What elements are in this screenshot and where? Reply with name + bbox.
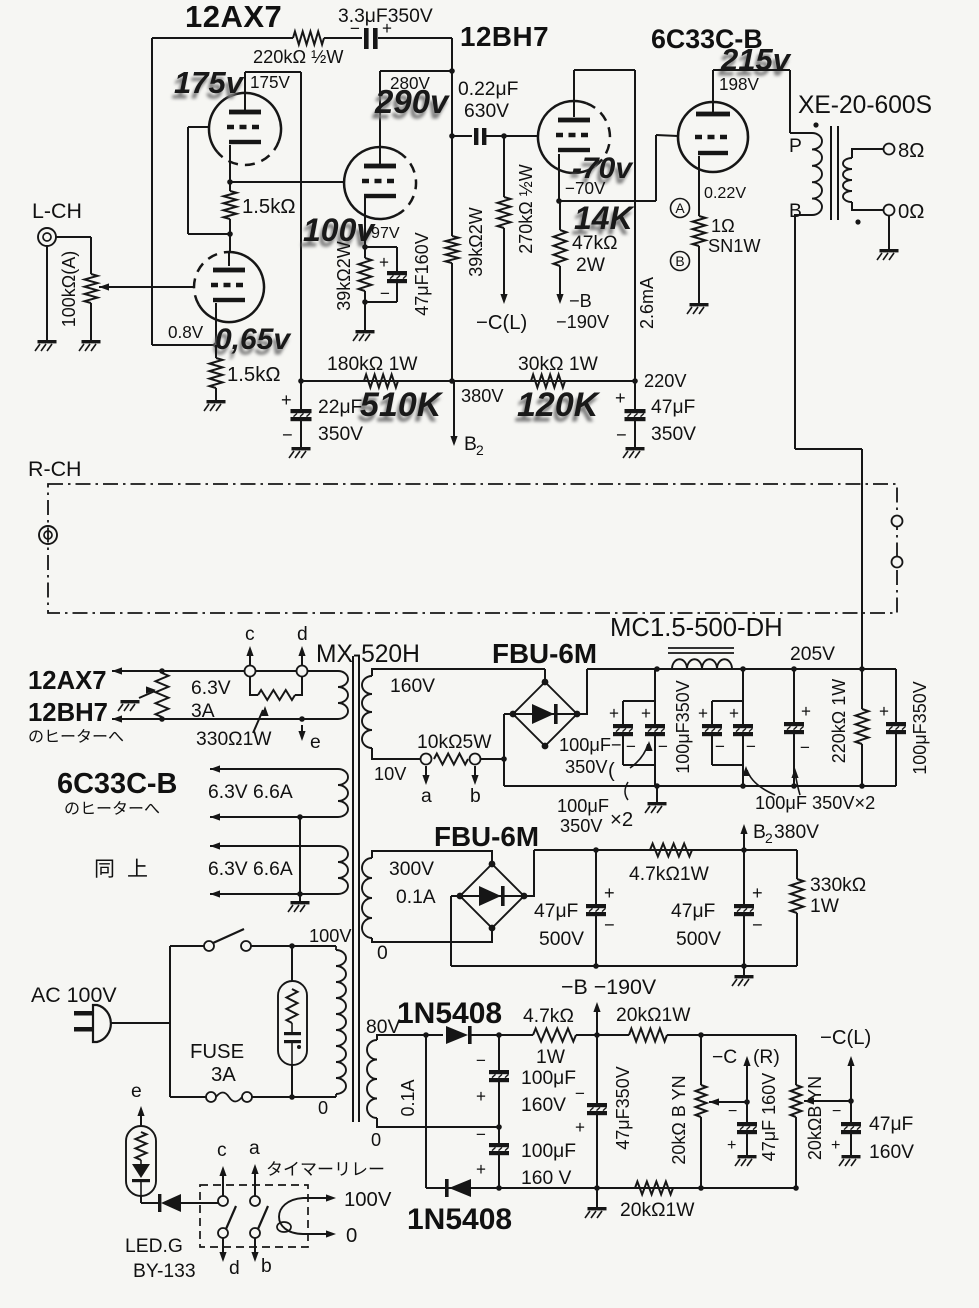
svg-text:350V: 350V bbox=[318, 424, 363, 445]
wire secondary top to 8ohm bbox=[852, 149, 883, 158]
arrow callout3 bbox=[795, 772, 800, 795]
wire pilot bottom lead bbox=[291, 1065, 293, 1097]
arrow winding2 bottom bbox=[210, 813, 220, 820]
wire grid step up bbox=[655, 135, 657, 201]
wire C11 bottom bbox=[895, 734, 897, 786]
svg-text:100μF: 100μF bbox=[521, 1141, 576, 1162]
node bias gnd mid bbox=[594, 1185, 600, 1191]
svg-text:1N5408: 1N5408 bbox=[407, 1203, 512, 1236]
svg-text:100μF350V: 100μF350V bbox=[910, 681, 930, 774]
wire pot top bbox=[90, 237, 92, 274]
wire cap stack bottom lead bbox=[498, 1155, 500, 1188]
svg-text:1N5408: 1N5408 bbox=[397, 997, 502, 1030]
svg-text:380V: 380V bbox=[774, 822, 819, 843]
svg-text:−: − bbox=[832, 1102, 841, 1120]
svg-text:330kΩ: 330kΩ bbox=[810, 875, 866, 896]
svg-text:20kΩ B YN: 20kΩ B YN bbox=[669, 1075, 689, 1164]
OPT phase dot secondary bbox=[855, 219, 860, 224]
node B+ input bbox=[859, 666, 865, 672]
svg-text:1.5kΩ: 1.5kΩ bbox=[227, 364, 281, 386]
node cap3 top bbox=[791, 666, 797, 672]
wire b to bridge bbox=[481, 758, 504, 760]
wire LED to diode bbox=[140, 1196, 142, 1203]
svg-text:×2: ×2 bbox=[610, 809, 633, 831]
wire winding2 top bbox=[210, 768, 338, 770]
label timer relay bbox=[268, 1161, 281, 1176]
svg-text:0: 0 bbox=[371, 1130, 381, 1150]
svg-text:(R): (R) bbox=[753, 1047, 780, 1068]
wire V3 plate to OPT P bbox=[713, 69, 790, 71]
svg-text:−: − bbox=[626, 737, 636, 756]
svg-text:−: − bbox=[575, 1084, 585, 1103]
capacitor C15 100uF160V bbox=[489, 1143, 509, 1147]
LED lamp assembly bbox=[126, 1126, 156, 1196]
diode D3 1N5408 bbox=[446, 1026, 468, 1044]
svg-text:350V: 350V bbox=[651, 424, 696, 445]
svg-text:100V: 100V bbox=[309, 926, 352, 946]
svg-text:−: − bbox=[380, 284, 390, 303]
wire B jog bbox=[795, 448, 862, 450]
svg-text:(: ( bbox=[608, 760, 615, 782]
node hum pot bottom bbox=[159, 716, 165, 722]
wire to R1 bbox=[229, 182, 231, 191]
capacitor C8 100uF350V bbox=[702, 724, 722, 728]
wire 0ohm to ground bbox=[888, 216, 890, 249]
svg-text:−: − bbox=[476, 1051, 486, 1070]
svg-text:+: + bbox=[879, 702, 889, 721]
wire to coupling cap bbox=[452, 135, 472, 137]
svg-text:d: d bbox=[297, 624, 308, 645]
V1a cathode wire bbox=[229, 145, 231, 182]
svg-text:2: 2 bbox=[476, 442, 484, 458]
capacitor C6 100uF350V bbox=[613, 724, 633, 728]
node winding2 bottom bbox=[297, 814, 303, 820]
arrow B2 out bbox=[743, 828, 745, 850]
node B+ rail junction bbox=[449, 378, 455, 384]
svg-text:20kΩ1W: 20kΩ1W bbox=[616, 1005, 691, 1026]
svg-text:−: − bbox=[746, 737, 756, 756]
wire 80V bottom lead bbox=[377, 1118, 499, 1127]
wire to fuse bbox=[170, 1096, 206, 1098]
svg-text:100V: 100V bbox=[344, 1189, 392, 1211]
capacitor C4 22uF350V lead bbox=[300, 381, 302, 409]
OPT phase dot primary bbox=[813, 122, 818, 127]
svg-text:160 V: 160 V bbox=[521, 1168, 572, 1189]
capacitor C13 47uF500V bbox=[734, 904, 754, 908]
svg-text:−B: −B bbox=[569, 291, 592, 311]
capacitor C10 100uF350V lead bbox=[793, 669, 795, 722]
wire jack to ground bbox=[46, 246, 48, 340]
svg-text:+: + bbox=[801, 702, 811, 721]
wire primary bottom bbox=[335, 1094, 337, 1097]
wire R14 bottom bbox=[861, 744, 863, 786]
test point A bbox=[671, 199, 690, 218]
svg-text:−70V: −70V bbox=[565, 179, 606, 198]
heater winding 6.3V 3A bbox=[338, 671, 348, 719]
arrow winding3 bottom bbox=[210, 890, 220, 897]
node choke out bbox=[740, 666, 746, 672]
wire B+ column lower bbox=[451, 263, 453, 381]
wire R2 to ground bbox=[215, 388, 217, 400]
OPT T1 core bbox=[830, 126, 832, 220]
capacitor C2 47uF160V bbox=[387, 271, 407, 275]
wire C2 bottom bracket bbox=[365, 301, 397, 303]
svg-text:e: e bbox=[131, 1081, 142, 1102]
svg-text:39kΩ2W: 39kΩ2W bbox=[334, 241, 354, 310]
wire 160V bottom lead bbox=[372, 748, 420, 759]
svg-text:0.22V: 0.22V bbox=[704, 184, 746, 202]
wire bridge2 neg down bbox=[450, 896, 452, 966]
svg-text:B: B bbox=[464, 434, 477, 455]
svg-text:0,65v: 0,65v bbox=[215, 323, 292, 356]
wire wiper to V1b grid bbox=[99, 286, 194, 288]
wire R1 bottom bbox=[229, 219, 231, 234]
node pot R feed bbox=[698, 1032, 704, 1038]
timer relay box (dashed) bbox=[200, 1185, 308, 1247]
svg-text:0: 0 bbox=[346, 1225, 357, 1247]
power transformer T2 core bbox=[352, 656, 354, 1122]
svg-text:+: + bbox=[476, 1087, 486, 1106]
node pilot bottom bbox=[289, 1094, 295, 1100]
OPT T1 primary lead bbox=[790, 132, 812, 134]
V2a cathode wire bbox=[364, 198, 366, 247]
svg-text:100μF−: 100μF− bbox=[559, 735, 622, 755]
svg-text:0.22μF: 0.22μF bbox=[458, 79, 518, 100]
node cap stack top bbox=[496, 1032, 502, 1038]
heater winding 6.3V 6.6A no.2 bbox=[338, 846, 348, 894]
node hum pot top bbox=[159, 668, 165, 674]
wire cap pair1 bottom bracket bbox=[623, 764, 655, 766]
capacitor C5 47uF350V lead bbox=[634, 381, 636, 409]
capacitor C18 47uF160V bbox=[841, 1122, 861, 1126]
svg-text:b: b bbox=[470, 786, 481, 807]
triode V1b 12AX7 lower bbox=[194, 252, 229, 305]
arrow to -C(L) bbox=[500, 294, 507, 304]
node plate-B junction bbox=[449, 68, 455, 74]
hum balance resistor 330ohm bbox=[156, 673, 169, 717]
wire plug to split bbox=[110, 1022, 170, 1024]
wire OPT P lead down bbox=[789, 70, 791, 133]
capacitor C17 47uF160V bbox=[737, 1122, 757, 1126]
V1b cathode wire bbox=[215, 303, 217, 345]
node R6-C2 junction bbox=[362, 299, 368, 305]
V1a plate wire bbox=[244, 72, 246, 112]
wire cap pair2 feed bbox=[742, 669, 744, 724]
wire bridge2 pos stub bbox=[525, 850, 534, 896]
svg-text:+: + bbox=[698, 704, 708, 723]
wire bridge1 left stub bbox=[504, 713, 513, 715]
wiper arrow of VR1 bbox=[99, 283, 109, 290]
svg-text:47μF350V: 47μF350V bbox=[613, 1066, 633, 1149]
resistor R6 39kohm 2W bbox=[359, 258, 372, 291]
svg-text:175V: 175V bbox=[250, 73, 291, 92]
resistor R19 20kohm 1W bbox=[635, 1182, 673, 1195]
svg-text:330Ω1W: 330Ω1W bbox=[196, 729, 272, 750]
relay contact 1 bbox=[218, 1196, 228, 1206]
wire C2 bottom lead bbox=[396, 283, 398, 302]
resistor R5 220kohm 1/2W bbox=[293, 32, 324, 45]
V2b plate wire bbox=[573, 70, 575, 117]
wire 160V top lead bbox=[372, 669, 545, 676]
wire to R9 bbox=[559, 201, 561, 230]
wire cap to 12BH7 column bbox=[378, 37, 452, 39]
svg-text:+: + bbox=[615, 388, 626, 408]
wire bias ground stub bbox=[596, 1188, 598, 1207]
node pilot top bbox=[289, 943, 295, 949]
svg-text:4.7kΩ: 4.7kΩ bbox=[523, 1006, 574, 1027]
resistor R8 270kohm 1/2W bbox=[498, 197, 511, 228]
resistor R17 4.7kohm 1W bbox=[533, 1029, 576, 1042]
wire C17 to ground bbox=[746, 1134, 748, 1155]
svg-text:500V: 500V bbox=[676, 929, 721, 950]
node grid-R1 junction bbox=[227, 231, 233, 237]
svg-text:−: − bbox=[604, 915, 615, 935]
svg-text:220kΩ 1W: 220kΩ 1W bbox=[829, 679, 849, 764]
arrow -C(R) out bbox=[746, 1062, 748, 1102]
svg-text:198V: 198V bbox=[719, 75, 760, 94]
resistor R7 39kohm 2W bbox=[446, 236, 459, 263]
wire top rail left bbox=[152, 37, 293, 39]
wire winding3 top bbox=[210, 845, 338, 847]
wire to R6 bbox=[364, 247, 366, 258]
svg-text:+: + bbox=[604, 883, 615, 903]
wire C12 bottom bbox=[595, 916, 597, 966]
svg-text:B: B bbox=[753, 822, 766, 843]
resistor R14 220kohm 1W lead bbox=[861, 670, 863, 709]
svg-text:12BH7: 12BH7 bbox=[28, 699, 108, 727]
triode V2a 12BH7 first half bbox=[398, 152, 416, 214]
arrow label to jumper bbox=[253, 710, 263, 733]
wire cap pair2 top bracket bbox=[712, 700, 743, 702]
svg-text:20kΩ1W: 20kΩ1W bbox=[620, 1200, 695, 1221]
wire R9 to -B bbox=[559, 266, 561, 296]
node -B rail 1 bbox=[593, 963, 599, 969]
arrow -B reference bbox=[596, 1006, 598, 1035]
svg-text:8Ω: 8Ω bbox=[898, 140, 924, 162]
svg-text:1W: 1W bbox=[536, 1047, 566, 1068]
svg-text:SN1W: SN1W bbox=[708, 236, 761, 256]
wire pot R lower lead bbox=[700, 1117, 702, 1188]
wire C9 bottom bbox=[742, 736, 744, 786]
arrow e up bbox=[140, 1110, 142, 1126]
ground (V1b cathode) bbox=[207, 400, 226, 403]
node B2 rail 2 bbox=[741, 847, 747, 853]
AC plug bbox=[74, 1011, 93, 1016]
svg-text:160V: 160V bbox=[869, 1142, 914, 1163]
wire winding2 bottom bbox=[210, 816, 338, 818]
wire grid feedback vertical bbox=[187, 127, 189, 234]
V2b cathode wire bbox=[558, 154, 560, 201]
resistor R9 47kohm 2W bbox=[554, 230, 567, 266]
triode V2b 12BH7 second half bbox=[586, 103, 610, 166]
resistor R18 20kohm 1W bbox=[629, 1029, 667, 1042]
wire NFB to cathode node bbox=[152, 344, 216, 346]
wire C6 bottom bbox=[622, 736, 624, 765]
svg-text:10V: 10V bbox=[374, 764, 407, 784]
svg-text:XE-20-600S: XE-20-600S bbox=[798, 92, 932, 119]
wire bias bottom rail bbox=[426, 1187, 796, 1189]
capacitor C3 0.22uF630V bbox=[474, 128, 478, 145]
svg-text:300V: 300V bbox=[389, 859, 434, 880]
wire to R2 bbox=[215, 345, 217, 358]
capacitor C4 22uF350V bbox=[291, 409, 312, 413]
ground (C4) bbox=[292, 447, 311, 450]
arrow winding3 top bbox=[210, 842, 220, 849]
wire NFB left vertical bbox=[151, 38, 153, 345]
resistor R15 4.7kohm 1W bbox=[650, 844, 692, 857]
svg-text:290v: 290v bbox=[374, 83, 450, 120]
node -B tap bbox=[594, 1032, 600, 1038]
svg-text:LED.G: LED.G bbox=[125, 1236, 183, 1257]
choke CH1 MC1.5-500-DH bbox=[672, 659, 732, 669]
svg-text:47μF: 47μF bbox=[671, 901, 715, 922]
timer jumper c-d bbox=[250, 677, 258, 695]
svg-text:FBU-6M: FBU-6M bbox=[492, 638, 597, 669]
wire relay 0 out bbox=[303, 1233, 330, 1235]
svg-text:20kΩB YN: 20kΩB YN bbox=[805, 1076, 825, 1160]
svg-text:270kΩ ½W: 270kΩ ½W bbox=[516, 164, 536, 254]
node V1a cathode junction bbox=[227, 179, 233, 185]
OPT B lead down bbox=[795, 215, 812, 449]
R-CH input jack bbox=[39, 526, 57, 544]
svg-text:2W: 2W bbox=[576, 255, 606, 276]
wire B2 rail bbox=[534, 849, 797, 851]
wire step to 6C33C grid bbox=[656, 135, 678, 136]
svg-text:c: c bbox=[245, 624, 255, 645]
node V2b cathode junction bbox=[556, 198, 562, 204]
svg-text:−: − bbox=[282, 425, 293, 445]
svg-text:−: − bbox=[800, 738, 810, 757]
arrow callout1 bbox=[630, 744, 648, 768]
svg-text:120K: 120K bbox=[517, 386, 601, 424]
svg-text:30kΩ 1W: 30kΩ 1W bbox=[518, 354, 599, 375]
capacitor C9 100uF350V bbox=[733, 724, 753, 728]
capacitor C16 47uF350V bbox=[587, 1103, 607, 1107]
wire 80V top lead bbox=[377, 1035, 443, 1040]
wire DC+ rail bbox=[587, 668, 896, 670]
svg-text:500V: 500V bbox=[539, 929, 584, 950]
VR3 wiper arrow bbox=[804, 1097, 814, 1104]
svg-text:FUSE: FUSE bbox=[190, 1041, 244, 1063]
wire 300V bottom lead bbox=[372, 928, 492, 942]
wire heater bottom bbox=[112, 718, 338, 720]
svg-text:b: b bbox=[261, 1256, 272, 1277]
svg-text:+: + bbox=[609, 704, 619, 723]
svg-text:39kΩ2W: 39kΩ2W bbox=[466, 207, 486, 276]
potentiometer VR2 20kohm B bbox=[696, 1085, 707, 1117]
svg-text:−: − bbox=[616, 425, 627, 445]
wire diode to relay bbox=[181, 1202, 218, 1204]
wire cap pair1 top bracket bbox=[623, 700, 655, 702]
svg-text:e: e bbox=[310, 732, 321, 753]
svg-text:630V: 630V bbox=[464, 101, 509, 122]
svg-text:1.5kΩ: 1.5kΩ bbox=[242, 196, 296, 218]
arrow terminal a bbox=[425, 766, 427, 780]
svg-text:6.3V 6.6A: 6.3V 6.6A bbox=[208, 782, 293, 803]
power switch SW1 bbox=[204, 941, 214, 951]
fuse F1 bbox=[206, 1092, 216, 1102]
node doubler bottom left bbox=[496, 1185, 502, 1191]
wire B+ down to PS bbox=[861, 449, 863, 670]
svg-text:510K: 510K bbox=[360, 386, 444, 424]
svg-text:2.6mA: 2.6mA bbox=[637, 277, 657, 329]
arrow terminal e bbox=[301, 725, 303, 736]
svg-text:+: + bbox=[727, 1136, 736, 1154]
wire pot R upper lead bbox=[700, 1035, 702, 1085]
arrow -C(L) out bbox=[850, 1062, 852, 1101]
svg-text:47μF160V: 47μF160V bbox=[412, 232, 432, 315]
node V1b cathode junction bbox=[213, 342, 219, 348]
resistor R13 10kohm 5W bbox=[434, 754, 468, 765]
wire B+ column upper bbox=[451, 38, 453, 236]
wire plate feed vertical bbox=[300, 72, 302, 381]
wire jack to pot bbox=[56, 236, 91, 238]
svg-text:160V: 160V bbox=[521, 1095, 566, 1116]
svg-text:220kΩ ½W: 220kΩ ½W bbox=[253, 47, 344, 67]
capacitor C6 100uF350V lead bbox=[622, 701, 624, 724]
OPT T1 primary winding bbox=[812, 133, 822, 215]
wire bridge1 right stub bbox=[577, 669, 587, 714]
ground (-B rail) bbox=[735, 975, 754, 978]
primary winding 100V bbox=[336, 950, 346, 1094]
wire rail R17 to R18 bbox=[576, 1034, 629, 1036]
arrow to -B bbox=[556, 294, 563, 304]
svg-text:+: + bbox=[752, 883, 763, 903]
wire bridge1 left leg bbox=[503, 714, 505, 786]
svg-text:a: a bbox=[421, 786, 432, 807]
V1b plate stub bbox=[228, 252, 230, 266]
svg-text:+: + bbox=[281, 390, 292, 410]
wire C5 to ground bbox=[634, 421, 636, 447]
label dooujou bbox=[96, 859, 113, 877]
capacitor C1 3.3uF350V bbox=[364, 28, 369, 49]
ground (hum balance) bbox=[121, 700, 140, 703]
svg-text:−190V: −190V bbox=[556, 312, 610, 332]
svg-text:47μF: 47μF bbox=[534, 901, 578, 922]
node cap stack mid bbox=[496, 1124, 502, 1130]
svg-text:−: − bbox=[476, 1125, 486, 1144]
R-CH channel box (dashed) bbox=[48, 484, 897, 613]
svg-text:350V: 350V bbox=[560, 816, 603, 836]
potentiometer VR3 20kohm B bbox=[791, 1085, 802, 1117]
svg-text:100μF: 100μF bbox=[521, 1068, 576, 1089]
svg-text:1Ω: 1Ω bbox=[711, 216, 735, 236]
capacitor C7 100uF350V bbox=[645, 724, 665, 728]
potentiometer VR1 100kohm(A) bbox=[85, 274, 98, 303]
svg-text:c: c bbox=[217, 1140, 227, 1161]
ground (bias supply) bbox=[588, 1207, 607, 1210]
svg-text:22μF: 22μF bbox=[318, 397, 362, 418]
choke core lines bbox=[668, 647, 734, 649]
wire C7 bottom bbox=[654, 736, 656, 786]
svg-text:100kΩ(A): 100kΩ(A) bbox=[59, 251, 79, 327]
wire 300V top lead bbox=[372, 851, 492, 865]
svg-text:97V: 97V bbox=[371, 224, 400, 242]
node bridge1 AC low bbox=[501, 756, 507, 762]
node grid-R8 junction bbox=[501, 133, 507, 139]
svg-text:−: − bbox=[728, 1102, 737, 1120]
wire winding3 bottom bbox=[210, 893, 338, 895]
wire C17 lead bbox=[746, 1102, 748, 1122]
resistor R2 1.5kohm bbox=[210, 358, 223, 388]
arrow contact d bbox=[222, 1238, 224, 1258]
node grail 2 bbox=[740, 783, 746, 789]
capacitor C5 47uF350V bbox=[625, 409, 646, 413]
wire 220V feed vertical bbox=[634, 70, 636, 381]
svg-text:P: P bbox=[789, 136, 802, 157]
wire C10 bottom bbox=[793, 734, 795, 786]
svg-text:0Ω: 0Ω bbox=[898, 201, 924, 223]
